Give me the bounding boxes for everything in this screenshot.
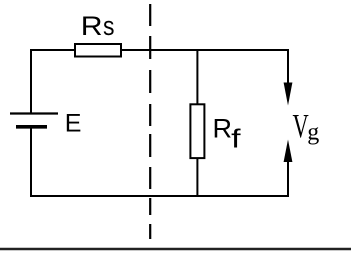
- svg-text:R: R: [213, 113, 233, 143]
- svg-text:s: s: [103, 11, 114, 41]
- svg-text:E: E: [65, 110, 82, 138]
- svg-text:f: f: [231, 125, 241, 153]
- svg-text:R: R: [81, 11, 103, 41]
- svg-text:g: g: [307, 120, 319, 146]
